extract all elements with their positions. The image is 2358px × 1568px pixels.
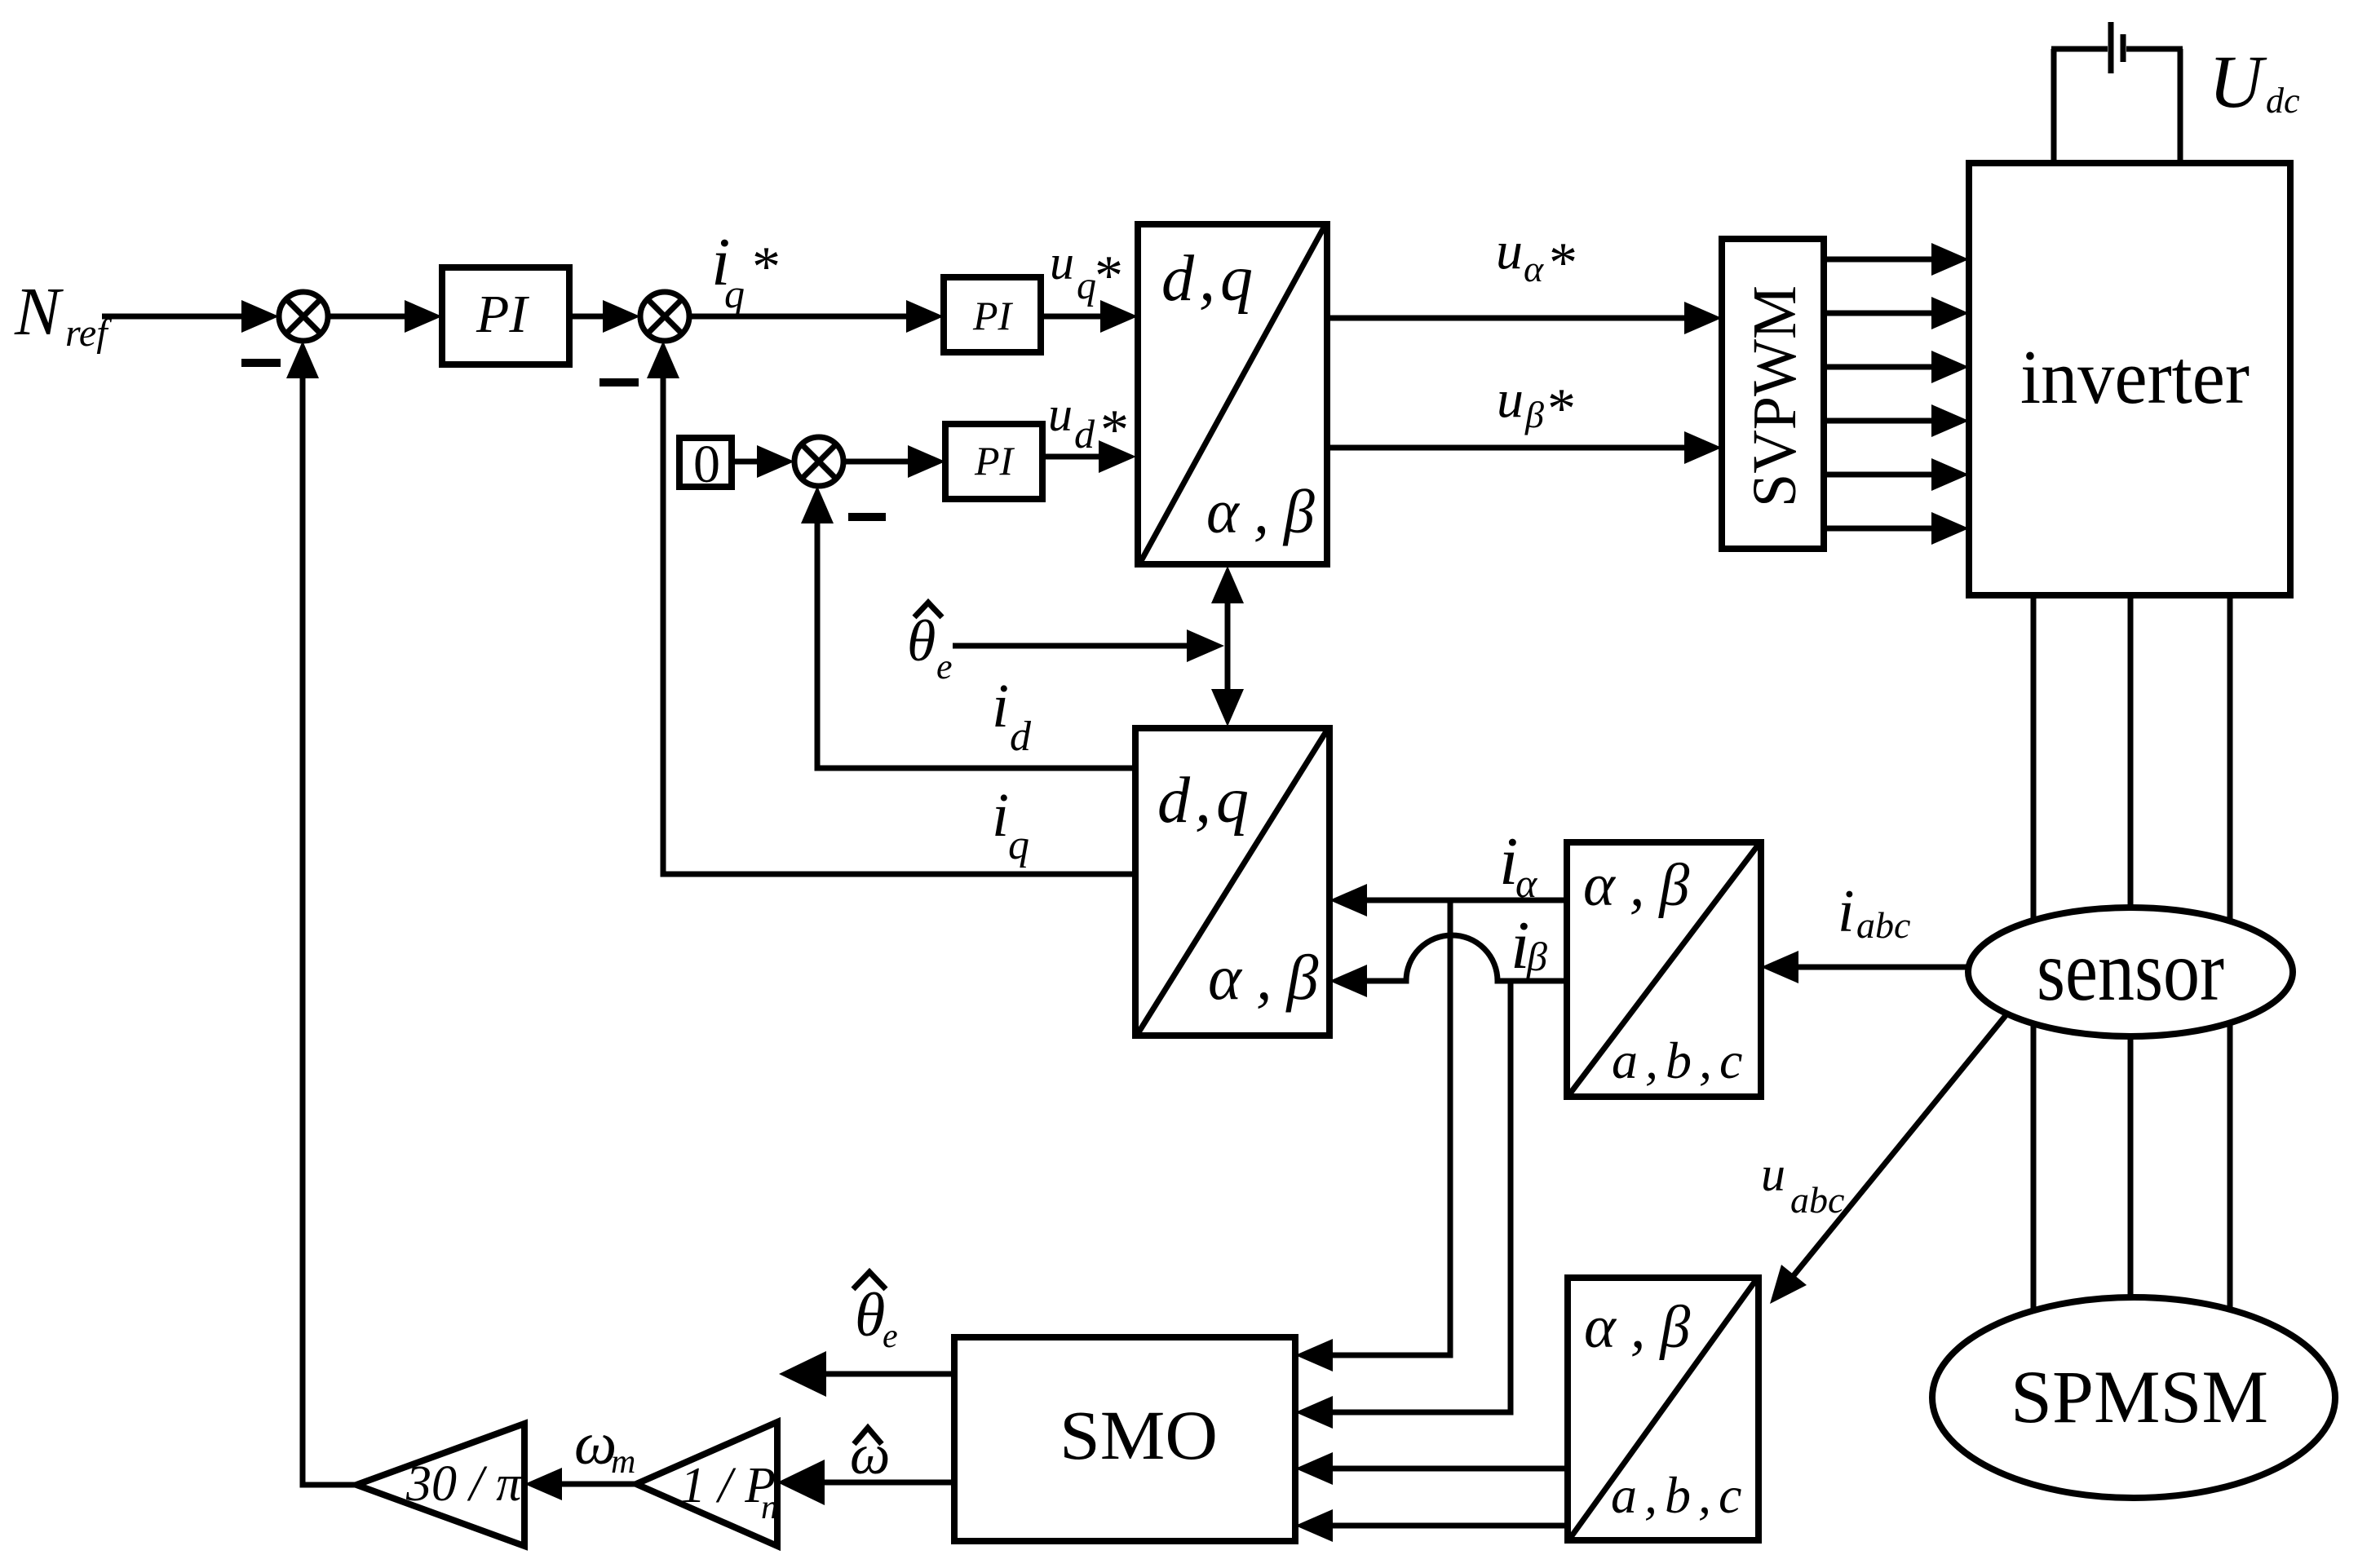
wire i_q feedback T2 to S2 bbox=[647, 341, 1135, 874]
svg-text:β: β bbox=[1526, 934, 1547, 979]
wire drop i_alpha to SMO bbox=[1295, 900, 1450, 1371]
node i_beta label bbox=[1511, 908, 1547, 983]
svg-text:a,b,c: a,b,c bbox=[1611, 1466, 1749, 1524]
wire i_d feedback T2 to S3 bbox=[801, 486, 1135, 768]
transform block T3 alphabeta to abc current bbox=[1567, 842, 1761, 1097]
svg-text:e: e bbox=[936, 647, 953, 687]
svg-text:α,β: α,β bbox=[1584, 1294, 1705, 1361]
transform block T4 alphabeta to abc voltage bbox=[1568, 1278, 1759, 1540]
sensor ellipse bbox=[1968, 908, 2293, 1036]
wire theta_e hat output of SMO bbox=[779, 1351, 954, 1397]
wire i_alpha T3 to T2 bbox=[1329, 884, 1567, 917]
node theta_e hat output label bbox=[853, 1272, 898, 1355]
wire PI1 to summing junction S2 bbox=[569, 300, 640, 333]
three phase wires inverter to SPMSM bbox=[2033, 595, 2230, 1337]
wire i_beta T3 to T2 with hop bbox=[1329, 935, 1567, 997]
svg-text:SVPWM: SVPWM bbox=[1741, 285, 1809, 507]
SVPWM block bbox=[1722, 239, 1824, 549]
transform block T2 dq to alphabeta Park bbox=[1135, 728, 1333, 1036]
svg-text:*: * bbox=[1547, 378, 1576, 440]
svg-text:PI: PI bbox=[972, 293, 1014, 338]
svg-text:inverter: inverter bbox=[2020, 335, 2250, 420]
svg-text:α,β: α,β bbox=[1208, 942, 1333, 1013]
node theta_e hat label input to transforms bbox=[907, 603, 953, 687]
svg-text:u: u bbox=[1497, 369, 1524, 429]
wire u_alpha T4 to SMO bbox=[1295, 1452, 1568, 1485]
svg-text:dc: dc bbox=[2266, 81, 2300, 121]
svg-text:*: * bbox=[752, 236, 781, 298]
node i_d label bbox=[992, 672, 1032, 760]
svg-text:*: * bbox=[1095, 245, 1123, 307]
wire PI3 to transform block T1 bbox=[1042, 440, 1136, 473]
PI controller PI2 q-axis current loop bbox=[944, 277, 1041, 352]
minus sign at S2 bbox=[599, 378, 639, 386]
svg-text:i: i bbox=[992, 672, 1009, 740]
node i_alpha label bbox=[1499, 824, 1538, 906]
svg-text:θ: θ bbox=[855, 1281, 885, 1349]
svg-text:N: N bbox=[14, 274, 64, 350]
PI controller PI3 d-axis current loop bbox=[945, 424, 1042, 499]
svg-text:m: m bbox=[611, 1443, 635, 1481]
svg-text:α: α bbox=[1524, 248, 1544, 289]
SPMSM ellipse motor bbox=[1932, 1297, 2335, 1498]
battery U_dc symbol bbox=[2111, 22, 2123, 73]
svg-text:θ: θ bbox=[907, 608, 936, 674]
wire drop i_beta to SMO bbox=[1295, 981, 1511, 1429]
six gate wires SVPWM to inverter bbox=[1824, 243, 1969, 545]
gain block 30/pi bbox=[356, 1424, 524, 1546]
SMO block sliding mode observer bbox=[954, 1337, 1295, 1541]
wire u_abc sensor to T4 bbox=[1770, 1014, 2007, 1304]
svg-text:d: d bbox=[1074, 411, 1095, 457]
svg-text:u: u bbox=[1050, 236, 1074, 289]
summing junction S2 bbox=[640, 292, 689, 341]
wire u_beta T4 to SMO bbox=[1295, 1509, 1568, 1542]
wire theta_e to double arrow bbox=[953, 629, 1224, 662]
node omega hat label bbox=[850, 1424, 890, 1486]
svg-text:SPMSM: SPMSM bbox=[2011, 1355, 2268, 1438]
minus sign at S3 bbox=[848, 513, 886, 521]
svg-text:q: q bbox=[724, 271, 745, 316]
svg-text:PI: PI bbox=[476, 285, 529, 344]
svg-text:u: u bbox=[1048, 387, 1073, 441]
svg-text:q: q bbox=[1008, 822, 1029, 868]
svg-text:d,q: d,q bbox=[1161, 243, 1258, 315]
node u_d* label bbox=[1048, 387, 1129, 462]
node N_ref label bbox=[14, 274, 112, 355]
transform block T1 dq to alphabeta inverse Park bbox=[1138, 224, 1329, 564]
svg-text:β: β bbox=[1524, 394, 1544, 435]
svg-text:α,β: α,β bbox=[1583, 852, 1704, 919]
double-headed arrow between T1 and T2 bbox=[1211, 566, 1244, 727]
svg-text:i: i bbox=[1838, 878, 1855, 945]
svg-text:0: 0 bbox=[693, 435, 720, 494]
node i_q label bbox=[992, 781, 1029, 868]
DC link wires bbox=[2051, 49, 2183, 163]
wire speed feedback 30/pi up to S1 bbox=[286, 341, 356, 1485]
wire S1 to PI1 bbox=[328, 300, 442, 333]
svg-text:SMO: SMO bbox=[1060, 1396, 1218, 1474]
wire u_alpha* T1 to SVPWM bbox=[1327, 302, 1722, 334]
wire N_ref to summing junction S1 bbox=[102, 300, 279, 333]
gain block 1/P_n bbox=[636, 1422, 778, 1546]
svg-text:e: e bbox=[883, 1318, 898, 1355]
wire S2 to PI2 bbox=[689, 300, 944, 333]
minus sign at S1 bbox=[241, 359, 281, 367]
svg-text:i: i bbox=[992, 781, 1009, 850]
inverter block bbox=[1969, 163, 2290, 595]
node omega_m label bbox=[574, 1411, 635, 1481]
svg-text:n: n bbox=[761, 1489, 778, 1526]
node u_alpha* label bbox=[1496, 221, 1577, 294]
node i_q* label bbox=[711, 224, 781, 316]
svg-text:*: * bbox=[1549, 232, 1577, 294]
node u_abc label bbox=[1761, 1147, 1844, 1221]
svg-text:U: U bbox=[2209, 40, 2267, 123]
PI controller PI1 speed loop bbox=[442, 267, 569, 364]
svg-text:abc: abc bbox=[1856, 904, 1910, 946]
node u_q* label bbox=[1050, 236, 1123, 307]
svg-text:u: u bbox=[1761, 1147, 1785, 1201]
svg-text:d,q: d,q bbox=[1157, 765, 1254, 837]
svg-text:30 / π: 30 / π bbox=[405, 1456, 523, 1512]
node U_dc label bbox=[2209, 40, 2300, 123]
summing junction S1 bbox=[279, 292, 328, 341]
svg-text:PI: PI bbox=[974, 438, 1015, 484]
wire omega_m 1/P_n to 30/pi bbox=[524, 1468, 636, 1500]
wire omega hat output of SMO bbox=[777, 1460, 954, 1505]
svg-text:sensor: sensor bbox=[2037, 923, 2224, 1018]
node u_beta* label bbox=[1497, 369, 1576, 440]
svg-text:u: u bbox=[1496, 221, 1523, 280]
wire u_beta* T1 to SVPWM bbox=[1327, 431, 1722, 464]
svg-text:abc: abc bbox=[1790, 1179, 1844, 1221]
wire 0 to summing junction S3 bbox=[732, 445, 794, 478]
svg-text:d: d bbox=[1010, 713, 1032, 760]
node i_abc label bbox=[1838, 878, 1910, 946]
summing junction S3 bbox=[794, 437, 843, 486]
svg-text:a,b,c: a,b,c bbox=[1612, 1031, 1750, 1089]
svg-text:α,β: α,β bbox=[1206, 478, 1329, 546]
svg-text:q: q bbox=[1077, 264, 1096, 307]
wire i_abc sensor to T3 bbox=[1761, 951, 1968, 983]
wire S3 to PI3 bbox=[843, 445, 945, 478]
constant block 0 bbox=[679, 435, 732, 494]
wire PI2 to transform block T1 bbox=[1041, 300, 1138, 333]
